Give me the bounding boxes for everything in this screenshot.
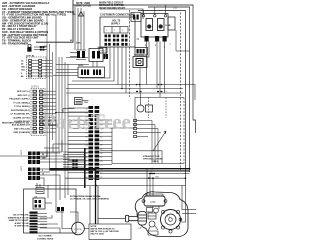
svg-text:56: 56 <box>42 154 44 156</box>
svg-text:A WHT TO GB: A WHT TO GB <box>15 222 29 225</box>
diode block CR2 <box>27 44 31 52</box>
svg-text:47: 47 <box>100 157 102 159</box>
wire under labels <box>66 57 88 59</box>
heavy wire engine rail 2 <box>96 170 190 172</box>
heavy wire engine rail <box>50 168 190 170</box>
svg-text:OPTIONAL CHOKE: OPTIONAL CHOKE <box>143 158 163 161</box>
svg-text:B GRN TO GB: B GRN TO GB <box>15 226 29 228</box>
svg-text:SHMETR TO SHUNT: SHMETR TO SHUNT <box>9 220 30 222</box>
hour meter HM <box>137 105 153 112</box>
OLT tower box <box>24 189 77 233</box>
mid wire H88 <box>66 88 183 90</box>
UR1 top labels <box>70 40 81 45</box>
terminal strip TB2 right column <box>95 106 100 180</box>
wire engine to right rail <box>181 186 197 222</box>
BAT drop wire <box>139 68 141 94</box>
diode pins left of UR1 <box>77 51 85 58</box>
extra power text <box>70 195 109 201</box>
svg-text:60: 60 <box>85 137 87 139</box>
appendage drop wire <box>175 30 177 51</box>
wires around UR1 <box>56 53 97 68</box>
wire fuse to strip <box>55 101 89 113</box>
svg-text:GRD: GRD <box>100 51 105 53</box>
svg-text:16A: 16A <box>21 69 25 72</box>
heavy wire parallel <box>97 186 99 224</box>
svg-text:95: 95 <box>85 157 87 159</box>
svg-text:21: 21 <box>100 149 102 151</box>
svg-text:UR1: UR1 <box>97 47 102 49</box>
CON1 left wires <box>53 70 78 76</box>
svg-text:60: 60 <box>100 161 102 163</box>
control box outline <box>112 98 184 164</box>
svg-text:19: 19 <box>85 165 87 167</box>
svg-text:CB - CIRCUIT BREAKER: CB - CIRCUIT BREAKER <box>2 7 32 11</box>
legend box border <box>36 0 73 42</box>
wire H186 <box>35 185 186 187</box>
svg-text:67: 67 <box>85 141 87 143</box>
svg-text:0: 0 <box>21 73 23 75</box>
svg-text:J2/P2: J2/P2 <box>21 149 23 155</box>
svg-text:ONLY: ONLY <box>152 161 158 163</box>
wire H172 <box>100 173 190 175</box>
legend text block <box>2 1 74 45</box>
choke wire <box>100 151 163 164</box>
svg-text:P COIL SENS(+): P COIL SENS(+) <box>13 102 30 104</box>
fuel tube <box>126 215 139 222</box>
engine starter circle <box>161 210 181 230</box>
engine body outline <box>135 192 188 237</box>
connector CON2 <box>131 13 141 22</box>
wires to engine top <box>147 169 182 210</box>
bus wire V65 <box>64 62 66 188</box>
engine F50 module <box>144 196 165 206</box>
battery charge rectifier BR1 <box>133 54 147 68</box>
TB2 fan-out left <box>68 108 89 173</box>
bus wire V59 <box>58 57 60 152</box>
TB2 left tiny labels <box>85 108 87 179</box>
volts supply text <box>111 21 121 26</box>
warning symbol <box>79 12 84 17</box>
right short wire <box>176 50 190 52</box>
heavy riser wire <box>84 148 86 188</box>
svg-text:CB-T1 PWR VIA: CB-T1 PWR VIA <box>13 214 29 217</box>
svg-text:18A: 18A <box>21 66 25 69</box>
svg-text:2 1: 2 1 <box>164 91 168 93</box>
TB2 fan-out right <box>99 120 112 169</box>
svg-text:J6/P6: J6/P6 <box>78 65 84 67</box>
svg-text:F1 - FUSE 15A (PROTECTION AV: F1 - FUSE 15A (PROTECTION AVR AND ALL TY… <box>2 13 66 17</box>
top rail wire 3 <box>73 5 196 133</box>
top rail wire 4 <box>148 7 190 172</box>
svg-text:12: 12 <box>85 161 87 163</box>
right rail dashed V180 <box>180 13 182 171</box>
relay lower terminals <box>145 36 167 42</box>
svg-text:81: 81 <box>85 149 87 151</box>
relay coil K2 <box>158 19 165 31</box>
P5 pins left column <box>29 60 42 77</box>
svg-text:J3/P3: J3/P3 <box>21 165 23 171</box>
hatched block top <box>36 188 44 194</box>
J2 right labels <box>42 154 46 176</box>
wires into OLT from top <box>37 183 68 212</box>
svg-text:9: 9 <box>155 45 157 47</box>
svg-text:SHMETR BLK TO GB: SHMETR BLK TO GB <box>8 217 29 219</box>
relay terminals <box>142 15 166 17</box>
fuse F1 <box>75 98 83 105</box>
choke arrow <box>153 131 166 151</box>
F50 end bolts <box>142 194 167 203</box>
small terminal pair <box>57 207 64 211</box>
connector P5 dashed box <box>27 57 47 79</box>
bus wire V56 <box>55 14 57 188</box>
svg-text:62: 62 <box>100 137 102 139</box>
connector J5 pins <box>72 160 77 170</box>
bus wire V47 <box>46 14 48 157</box>
svg-text:RESET BEFORE START: RESET BEFORE START <box>99 7 126 10</box>
J2 wires <box>40 153 75 162</box>
junction dots <box>55 84 190 187</box>
LP solenoid <box>138 212 147 226</box>
svg-text:73: 73 <box>100 165 102 167</box>
customer connections box <box>100 17 135 47</box>
relay drop wires <box>147 42 165 98</box>
terminal lug grid <box>105 35 128 46</box>
svg-text:14: 14 <box>21 59 24 62</box>
heavy wire battery feed <box>50 170 96 224</box>
svg-text:SHUTDOWN (RLY): SHUTDOWN (RLY) <box>11 110 30 112</box>
svg-text:NOTE: NOTE <box>91 226 97 228</box>
TB2 right tiny labels <box>100 120 102 179</box>
OLT strip labels left <box>8 214 29 228</box>
control box inner connector <box>134 120 137 138</box>
customer box drop wires <box>72 47 126 93</box>
svg-text:GB - GENERATOR LINK BOARD: GB - GENERATOR LINK BOARD <box>2 16 42 20</box>
svg-text:STRAIGHT FOR: STRAIGHT FOR <box>143 155 160 158</box>
svg-text:2: 2 <box>114 30 116 32</box>
relay box U1 <box>141 14 168 38</box>
svg-text:J1/P1 A: J1/P1 A <box>31 85 39 88</box>
top rail wire 5 <box>138 11 186 187</box>
inner connector wires <box>137 121 161 164</box>
pins right of UR1 <box>104 54 109 59</box>
HM feed wire <box>140 93 142 105</box>
panel boundary dashed V129 <box>129 10 131 97</box>
svg-text:R2 - RELAY 2 RUN RELAY: R2 - RELAY 2 RUN RELAY <box>2 27 34 31</box>
J3 wires <box>40 169 60 186</box>
relay appendage box <box>168 17 175 30</box>
svg-text:0: 0 <box>42 170 43 172</box>
connector J3/P3 <box>28 168 40 181</box>
wires comp to bus <box>34 46 47 50</box>
svg-text:15A: 15A <box>84 101 88 104</box>
regulator UR1 <box>89 47 103 62</box>
svg-text:AVR OUT (-): AVR OUT (-) <box>18 94 31 97</box>
svg-text:ST/MTR: ST/MTR <box>74 229 83 231</box>
bus wire V62 <box>61 57 63 152</box>
relay coil K1 <box>146 19 153 31</box>
svg-text:BAT CHG (12V): BAT CHG (12V) <box>14 127 30 130</box>
J1/P1 wire labels <box>9 90 30 134</box>
svg-text:P COIL SENS(-): P COIL SENS(-) <box>14 106 30 108</box>
drop wires to UR1 <box>75 5 84 50</box>
svg-text:74: 74 <box>85 145 87 147</box>
control box dashed right edge <box>183 98 185 164</box>
svg-text:LP SOLENOID SPL: LP SOLENOID SPL <box>10 114 30 116</box>
svg-text:34: 34 <box>100 153 102 155</box>
svg-text:163: 163 <box>173 7 178 10</box>
svg-text:HELP IF 200A: HELP IF 200A <box>91 233 105 236</box>
note text B <box>99 3 126 10</box>
fan wires to riser <box>63 152 85 167</box>
connector J2/P2 <box>28 152 40 165</box>
svg-text:BATTS PWR BYPASS TO: BATTS PWR BYPASS TO <box>91 227 116 230</box>
selector table <box>104 27 128 34</box>
svg-text:D 2B: D 2B <box>166 25 171 27</box>
ground lug box GRD <box>99 48 107 54</box>
connector box CON1 <box>78 67 105 78</box>
svg-text:BATTS CHG (+) IN THE FUSE: BATTS CHG (+) IN THE FUSE <box>91 230 120 233</box>
CON1 pin group right <box>93 70 101 76</box>
choke note text <box>143 155 163 163</box>
CON1 pin group left <box>81 70 89 76</box>
BFS note <box>89 224 131 240</box>
OLT terminal strip <box>30 212 38 234</box>
svg-text:T1 - REF VOLTAGE REG UNIT: T1 - REF VOLTAGE REG UNIT <box>2 36 39 40</box>
wires inside OLT <box>40 186 90 233</box>
svg-text:33: 33 <box>85 173 87 175</box>
control box dashed drops <box>149 98 167 119</box>
svg-text:VOL TS: VOL TS <box>112 21 121 23</box>
wire from left edge <box>0 155 28 157</box>
J1/P1 pins <box>33 90 43 133</box>
top rail wire 2 <box>100 9 143 19</box>
mid wire H93 with inline connectors <box>66 92 183 94</box>
svg-text:EXTRA/PWRA ENGINE SIGNAL: EXTRA/PWRA ENGINE SIGNAL <box>70 195 102 198</box>
svg-text:3: 3 <box>122 30 124 32</box>
svg-text:GRD (CHASSIS): GRD (CHASSIS) <box>13 131 30 134</box>
relay top feed wires <box>144 5 166 15</box>
svg-text:BREAKER IS TRIPPED: BREAKER IS TRIPPED <box>99 4 124 7</box>
GB board box <box>33 198 45 209</box>
svg-text:CHG: CHG <box>76 43 81 45</box>
svg-text:GB: GB <box>34 196 38 198</box>
terminal strip TB2 left column <box>89 106 94 180</box>
right edge stub 193 <box>186 85 196 101</box>
svg-text:29: 29 <box>21 64 24 66</box>
relay pin stub labels <box>145 44 172 49</box>
svg-text:SUPPLY: SUPPLY <box>111 24 120 26</box>
governor block <box>40 46 45 51</box>
svg-text:AVR - AUTOMATIC VOLTAGE REGULA: AVR - AUTOMATIC VOLTAGE REGULA <box>2 1 49 5</box>
OLT strip wires right <box>38 214 48 228</box>
svg-text:44: 44 <box>21 75 24 78</box>
svg-text:VR - TRANSFORMER: VR - TRANSFORMER <box>2 41 28 45</box>
bus wire V68 <box>67 64 69 188</box>
svg-text:ALARM 12V SIG: ALARM 12V SIG <box>13 116 30 119</box>
inline connector 56 <box>148 174 155 179</box>
P5 jumper wires <box>32 61 52 77</box>
svg-text:OLT TOWER: OLT TOWER <box>39 236 52 238</box>
svg-text:F50: F50 <box>151 200 156 204</box>
starter bolt circles <box>161 210 182 233</box>
bus wire V50 <box>49 44 51 170</box>
svg-text:SCR - RUN RELAY MODULE (OPTION: SCR - RUN RELAY MODULE (OPTION <box>2 30 48 34</box>
carburetor cluster <box>141 206 159 235</box>
svg-text:64: 64 <box>137 38 140 41</box>
svg-text:1: 1 <box>106 30 108 32</box>
wires strip to J2 <box>28 140 88 157</box>
mid wire H84 <box>68 84 186 86</box>
connector J4 <box>135 48 148 56</box>
note text A <box>76 3 92 8</box>
P5 left labels <box>21 59 25 78</box>
svg-text:88: 88 <box>100 145 102 147</box>
OLT label <box>37 236 54 240</box>
TB2 pin separations <box>88 110 100 179</box>
svg-text:HM - FIELD BOOST MOVISTOR (1.5: HM - FIELD BOOST MOVISTOR (1.5A) <box>2 21 48 25</box>
svg-text:75: 75 <box>100 141 102 143</box>
wire H177 <box>65 177 186 179</box>
GB note boxes <box>40 120 56 126</box>
svg-text:PartsTree: PartsTree <box>43 110 131 134</box>
bus wire V53 <box>52 52 54 140</box>
starter contactor circle <box>72 222 85 235</box>
svg-text:FIELD/EXC SUPPLY: FIELD/EXC SUPPLY <box>9 99 30 101</box>
svg-text:7: 7 <box>170 44 172 46</box>
svg-text:AVR OUT (+): AVR OUT (+) <box>17 90 30 93</box>
svg-text:LP: LP <box>139 228 142 230</box>
J1/P1 fan-out wires <box>43 91 56 132</box>
svg-text:WHEN FIELD CIRCUIT: WHEN FIELD CIRCUIT <box>99 3 124 5</box>
fuel line wire <box>98 217 128 219</box>
svg-text:88: 88 <box>85 153 87 155</box>
connector J1/P1 dashed box <box>31 89 45 136</box>
J2 J3 labels <box>21 149 23 171</box>
